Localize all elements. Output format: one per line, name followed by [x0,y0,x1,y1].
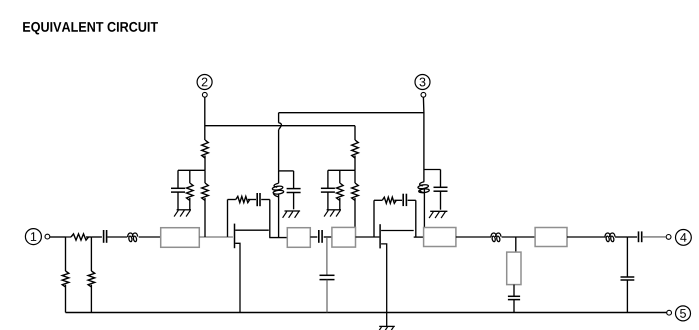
resistor (feedback 1) [228,196,250,202]
capacitor (input series) [91,230,106,243]
transistor FET2 drain [381,230,414,232]
ground (drain bias 1) [283,211,301,218]
box (interstage matching 1) [287,228,310,248]
resistor (feedback 2) [374,197,396,203]
wire [354,170,356,183]
resistor (gate bias 2 shunt) [336,170,343,210]
capacitor (feedback 2) [394,194,416,206]
terminal 4 [666,230,691,246]
ground (gate bias 2) [324,210,341,217]
wire [107,236,127,238]
terminal 1 [25,229,49,245]
node bar (gate bias 2) [328,169,355,171]
capacitor (drain bias 1 bypass) [287,171,301,209]
wire [456,236,491,238]
capacitor (gate bias 1 bypass) [171,170,185,210]
box (output matching 1) [424,228,456,247]
wire to terminal 4 [643,236,666,238]
inductor (output series 1) [491,233,501,242]
terminal 5 [667,306,691,321]
ground (drain bias 2) [429,211,447,218]
feedback 1 left wire [227,200,229,237]
ground (FET2 source) [377,326,395,330]
wire [627,236,637,238]
capacitor (interstage shunt) [320,275,335,312]
node E (output shunt tap) [626,237,628,277]
resistor (gate bias 1 lower) [202,183,209,237]
feedback 2 right wire [415,200,417,237]
ground (gate bias 1) [174,210,191,217]
node A (input shunt junction 1) [65,237,67,271]
resistor (gate bias 2 upper) [352,126,359,171]
feedback 2 left wire [373,200,375,237]
wire terminal 2 down [204,97,206,140]
wire terminal 3 down [422,97,425,169]
wire gate-bias bus [205,125,355,127]
wire drain-supply bus [279,112,424,114]
capacitor (interstage series) [319,230,322,243]
wire from terminal 1 [50,236,66,238]
feedback 1 right wire [269,200,271,238]
wire box3 to FET2 gate [356,236,380,238]
terminal 3 [415,75,430,98]
wire [139,236,161,238]
capacitor (gate bias 2 bypass) [321,170,335,210]
node bar (drain bias 1) [279,170,294,172]
resistor (gate bias 1 shunt) [187,170,194,210]
inductor (drain bias 2 choke) [418,170,430,228]
capacitor (output shunt) [621,277,635,313]
capacitor (drain bias 2 bypass) [434,170,448,210]
resistor (input series) [66,234,92,240]
box (input matching 1) [161,228,200,248]
inductor (drain bias 1 choke) [272,171,284,238]
ground rail (net 5) [66,312,667,314]
wire box1 to FET1 gate [199,236,233,238]
capacitor (feedback 1) [248,193,270,206]
wire [324,236,332,238]
box (interstage matching 2) [332,227,356,247]
wire with hop over gate bus [279,113,282,171]
inductor (input series) [128,233,138,242]
node D (output stub tap) [515,237,517,252]
title text [23,22,158,35]
node B (input shunt junction 2) [90,237,92,271]
box (output matching 2) [535,228,567,247]
node bar (FET2 drain junction) [414,236,424,238]
resistor (input shunt 2) [88,271,95,313]
resistor (gate bias 1 upper) [202,140,209,170]
node C (interstage shunt tap) [326,237,328,275]
capacitor (output stub) [508,285,520,313]
node bar (drain bias 2) [424,169,441,171]
transistor FET1 source [235,243,240,312]
transistor FET1 gate bar [234,224,236,249]
wire [204,170,206,183]
box (output stub) [507,252,521,285]
wire [567,236,606,238]
node bar (gate bias 1) [178,169,205,171]
wire [502,236,535,238]
inductor (output series 2) [605,233,615,242]
wire [310,236,317,238]
resistor (input shunt 1) [62,271,69,313]
transistor FET1 drain [235,229,269,231]
wire [615,236,627,238]
capacitor (output series) [639,231,642,242]
transistor FET2 gate bar [379,224,381,248]
terminal 2 [197,75,212,98]
node bar (FET1 drain junction) [269,237,287,239]
resistor (gate bias 2 lower) [352,183,359,227]
transistor FET2 source [381,244,387,327]
